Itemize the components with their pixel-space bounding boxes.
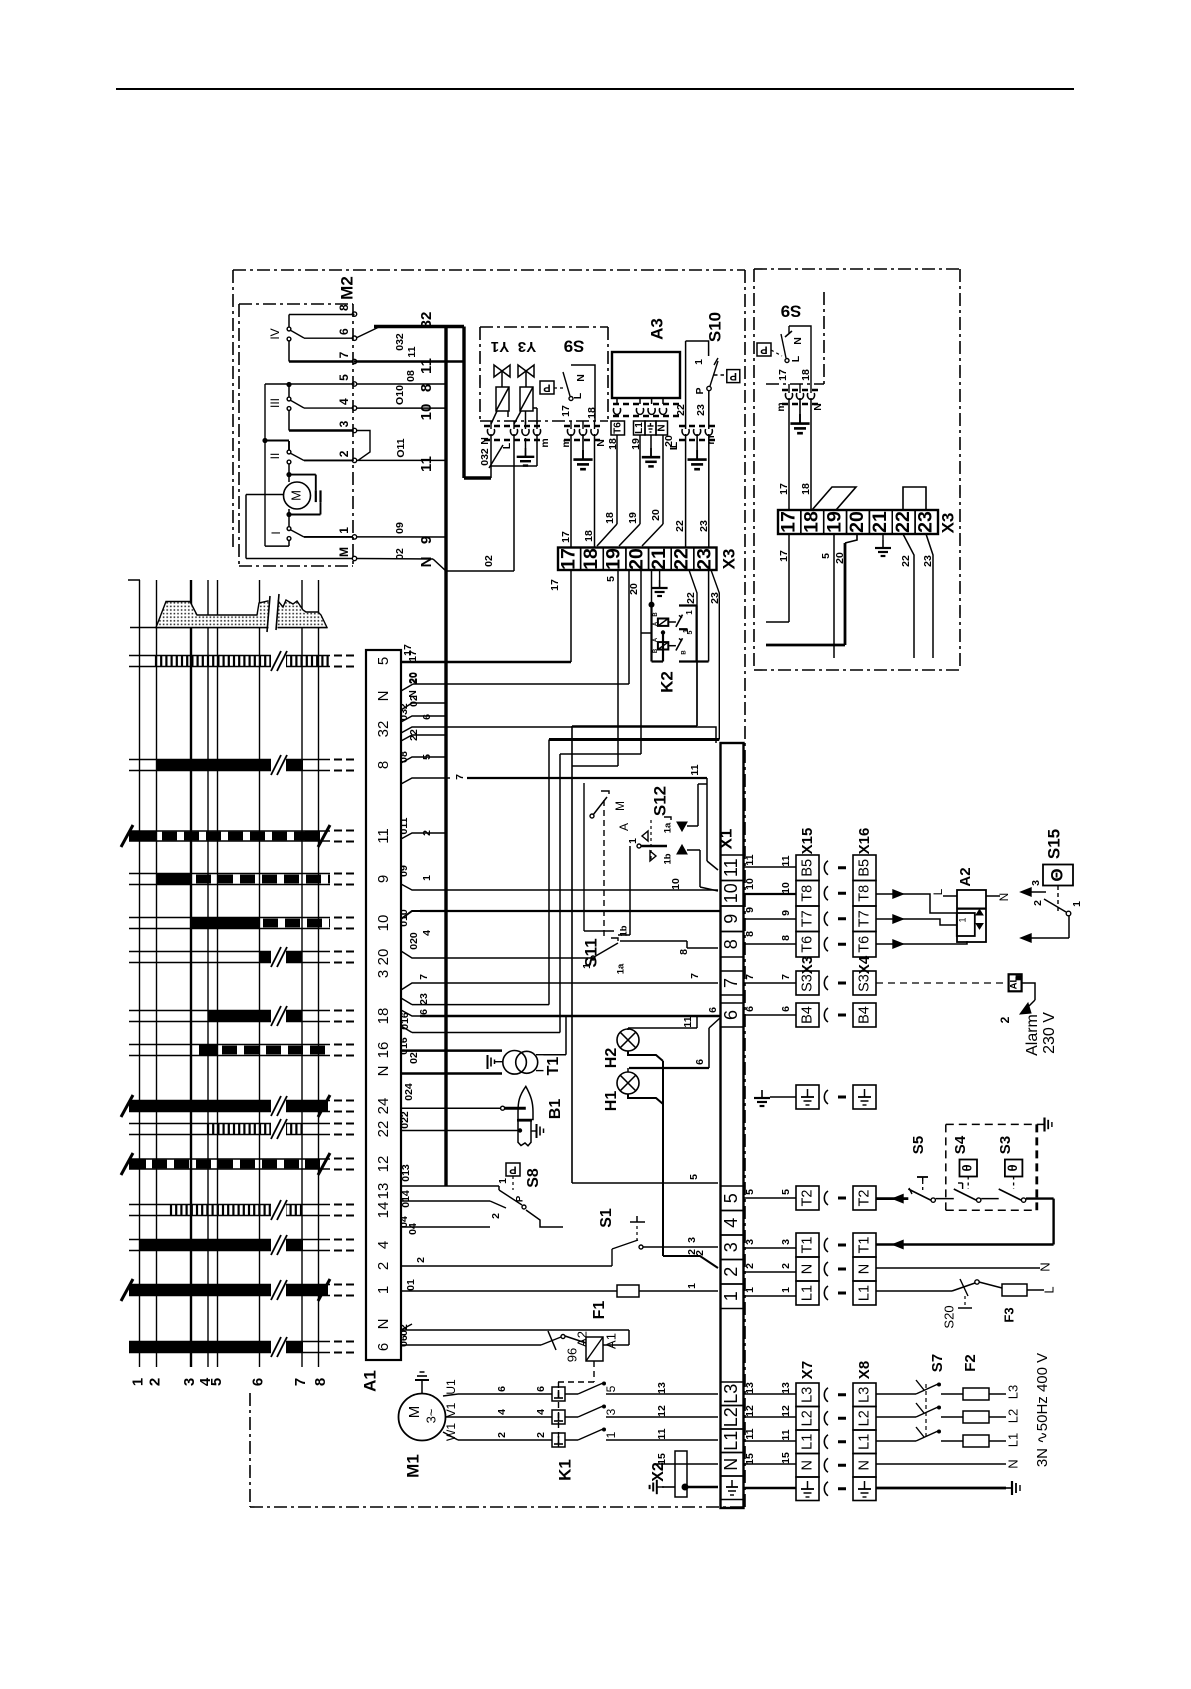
svg-text:18: 18 bbox=[583, 530, 595, 542]
X8 contact GND bbox=[853, 1477, 876, 1501]
svg-text:10: 10 bbox=[744, 878, 756, 890]
svg-text:1: 1 bbox=[780, 1287, 792, 1293]
svg-text:5: 5 bbox=[375, 657, 392, 665]
svg-text:S9: S9 bbox=[564, 337, 585, 356]
svg-text:10: 10 bbox=[670, 878, 682, 890]
svg-text:21: 21 bbox=[648, 548, 670, 570]
terminal X1.GND bbox=[721, 1476, 744, 1500]
svg-text:8: 8 bbox=[721, 939, 741, 949]
B1 wires bbox=[401, 1107, 501, 1109]
svg-text:1: 1 bbox=[421, 875, 433, 881]
solenoid coil Y3 bbox=[520, 387, 533, 411]
X16 contact B5 bbox=[853, 855, 876, 881]
A1 stub jog (net 22/08) bbox=[401, 735, 446, 741]
svg-text:L1: L1 bbox=[634, 422, 645, 434]
wires X8 to S7 bbox=[876, 1393, 916, 1395]
A1 stub jog to bus (net 6 tap) bbox=[401, 716, 446, 722]
M1 ground bbox=[421, 1380, 423, 1394]
svg-text:P: P bbox=[509, 1164, 516, 1176]
svg-text:3: 3 bbox=[780, 1239, 792, 1245]
svg-text:19: 19 bbox=[630, 438, 642, 450]
M2 pin5 wire (net 8) bbox=[356, 383, 446, 385]
svg-text:1: 1 bbox=[1071, 901, 1083, 907]
svg-text:9: 9 bbox=[721, 914, 741, 924]
X3right wire 20 down (thick) bbox=[844, 543, 847, 645]
svg-text:22: 22 bbox=[900, 555, 912, 567]
svg-text:P: P bbox=[543, 382, 550, 394]
svg-text:7: 7 bbox=[689, 973, 701, 979]
X7 contact GND bbox=[796, 1477, 819, 1501]
terminal X1.7 bbox=[721, 971, 744, 995]
svg-text:17: 17 bbox=[778, 511, 800, 533]
mains switch S20 bbox=[876, 1290, 952, 1292]
svg-text:X16: X16 bbox=[856, 828, 873, 855]
svg-text:22: 22 bbox=[671, 548, 693, 570]
M2 pin7 wire (net 11) bbox=[354, 360, 464, 363]
H1 top wire to net 6 branch bbox=[627, 1068, 629, 1072]
svg-text:01: 01 bbox=[405, 1279, 417, 1291]
svg-text:20: 20 bbox=[650, 509, 662, 521]
coil Y1 wires down bbox=[491, 411, 497, 424]
svg-text:L3: L3 bbox=[721, 1384, 741, 1404]
svg-text:8: 8 bbox=[678, 949, 690, 955]
svg-text:20: 20 bbox=[834, 552, 846, 564]
svg-text:9: 9 bbox=[780, 910, 792, 916]
svg-text:20: 20 bbox=[375, 949, 392, 966]
X3right wire 22 down bbox=[903, 534, 914, 658]
wire A1.1 to X1.10 bbox=[420, 889, 718, 891]
svg-text:L3: L3 bbox=[856, 1387, 872, 1403]
M2 capacitor bbox=[289, 474, 316, 476]
terminal strip X1 outline bbox=[721, 743, 744, 1508]
wire net 20 from N bbox=[662, 435, 664, 524]
controller A2 box bbox=[957, 890, 986, 942]
X8 ground wire (thick) bbox=[876, 1487, 1006, 1490]
svg-text:X3: X3 bbox=[719, 549, 738, 570]
svg-text:B1: B1 bbox=[547, 1099, 564, 1120]
svg-text:96: 96 bbox=[564, 1348, 579, 1362]
svg-text:013: 013 bbox=[400, 1164, 412, 1182]
svg-text:14: 14 bbox=[375, 1202, 392, 1219]
wire net 7 from A1 to X1.7 bbox=[401, 983, 718, 990]
X8 contact L2 bbox=[853, 1407, 876, 1431]
A3 connector pins bbox=[616, 398, 618, 404]
connector dashed bridges bbox=[484, 425, 543, 428]
terminal X1.L3 bbox=[721, 1382, 744, 1406]
svg-text:23: 23 bbox=[693, 548, 715, 570]
svg-text:5: 5 bbox=[337, 374, 351, 381]
svg-text:8: 8 bbox=[375, 761, 392, 769]
svg-text:8: 8 bbox=[418, 384, 435, 392]
solenoid coil Y1 bbox=[496, 387, 509, 411]
wire X3.20 down to A1 (net 20) bbox=[628, 570, 630, 684]
svg-text:08: 08 bbox=[405, 370, 417, 382]
svg-text:6: 6 bbox=[780, 1006, 792, 1012]
svg-text:22: 22 bbox=[892, 511, 914, 533]
middle bus wire net 5 to X1.5 bbox=[571, 726, 573, 1183]
terminal X3.22 bbox=[671, 548, 694, 571]
svg-text:P: P bbox=[730, 370, 737, 382]
svg-text:H2: H2 bbox=[603, 1048, 620, 1069]
svg-text:T1: T1 bbox=[545, 1057, 562, 1076]
svg-text:2: 2 bbox=[337, 450, 351, 457]
svg-text:3N ∿50Hz 400 V: 3N ∿50Hz 400 V bbox=[1034, 1353, 1051, 1467]
svg-text:L1: L1 bbox=[856, 1285, 872, 1301]
svg-text:T6: T6 bbox=[856, 936, 872, 953]
svg-text:S12: S12 bbox=[650, 786, 669, 816]
svg-text:3: 3 bbox=[721, 1242, 741, 1252]
svg-text:5: 5 bbox=[721, 1193, 741, 1203]
X7 contact L1 bbox=[796, 1430, 819, 1454]
terminal X1.L1 bbox=[721, 1429, 744, 1453]
svg-text:S1: S1 bbox=[598, 1208, 615, 1228]
short bus wire bbox=[583, 783, 585, 931]
S9 right wire 17 down bbox=[788, 398, 790, 510]
svg-text:1b: 1b bbox=[663, 853, 674, 864]
svg-text:2: 2 bbox=[496, 1432, 508, 1438]
svg-text:9: 9 bbox=[418, 536, 435, 544]
wires X1 to X15/X16 connectors bbox=[744, 866, 797, 868]
svg-text:7: 7 bbox=[418, 974, 430, 980]
S9 right P box bbox=[757, 343, 771, 356]
svg-text:11: 11 bbox=[375, 828, 392, 844]
svg-text:18: 18 bbox=[800, 511, 822, 533]
svg-text:S4: S4 bbox=[952, 1135, 969, 1154]
svg-text:1: 1 bbox=[721, 1291, 741, 1301]
svg-text:IV: IV bbox=[268, 328, 282, 339]
svg-text:A3: A3 bbox=[647, 318, 666, 340]
svg-text:23: 23 bbox=[922, 555, 934, 567]
X2 ground bbox=[662, 1486, 675, 1488]
svg-text:3: 3 bbox=[1030, 880, 1042, 886]
terminal X1.9 bbox=[721, 906, 744, 932]
svg-text:4: 4 bbox=[496, 1409, 508, 1415]
svg-text:L1: L1 bbox=[799, 1434, 815, 1450]
svg-text:7: 7 bbox=[454, 774, 466, 780]
svg-text:N: N bbox=[792, 337, 804, 345]
net 032 bus (thick) bbox=[462, 327, 465, 479]
right enclosure frame (dash-dot) bbox=[754, 268, 960, 270]
terminal X1.L2 bbox=[721, 1406, 744, 1430]
chart row 22 (tick band) bbox=[129, 1123, 330, 1125]
svg-text:N: N bbox=[418, 557, 435, 568]
motor M1 bbox=[399, 1394, 446, 1441]
terminal X3.20 bbox=[626, 548, 649, 571]
svg-text:O11: O11 bbox=[395, 438, 407, 457]
svg-text:S7: S7 bbox=[929, 1354, 946, 1372]
wire X16.T6 to A2 bbox=[876, 941, 967, 944]
svg-text:S9: S9 bbox=[781, 302, 802, 321]
svg-text:5: 5 bbox=[605, 576, 617, 582]
svg-text:Θ: Θ bbox=[1047, 868, 1066, 881]
svg-text:A: A bbox=[617, 823, 631, 831]
M2 sub-enclosure frame (dash-dot) bbox=[239, 303, 353, 305]
X15 contact T8 bbox=[796, 881, 819, 907]
svg-text:024: 024 bbox=[403, 1083, 415, 1101]
T1 ground bbox=[494, 1061, 503, 1063]
svg-text:13: 13 bbox=[780, 1382, 792, 1394]
svg-text:m: m bbox=[775, 402, 787, 411]
K1 mechanical dashed link bbox=[558, 1382, 560, 1447]
svg-text:3: 3 bbox=[604, 1408, 618, 1415]
B1 ground bbox=[531, 1130, 536, 1132]
S9 right connector pins bbox=[785, 393, 792, 399]
svg-text:13: 13 bbox=[375, 1183, 392, 1200]
svg-text:1: 1 bbox=[581, 963, 593, 969]
svg-text:AL: AL bbox=[1009, 976, 1020, 989]
svg-text:2: 2 bbox=[146, 1378, 163, 1386]
pin 3 to pin 2 jumper bbox=[356, 431, 370, 461]
svg-text:022: 022 bbox=[399, 1111, 411, 1129]
X3right wire 23 down bbox=[926, 534, 933, 658]
svg-text:19: 19 bbox=[603, 548, 625, 570]
svg-text:8: 8 bbox=[780, 935, 792, 941]
svg-text:4: 4 bbox=[535, 1409, 547, 1415]
svg-text:17: 17 bbox=[560, 405, 572, 417]
svg-text:18: 18 bbox=[607, 438, 619, 450]
svg-text:F3: F3 bbox=[1001, 1307, 1016, 1322]
svg-text:N: N bbox=[721, 1458, 741, 1471]
lamp bus down to X1.2 bbox=[662, 1061, 664, 1256]
terminal strip X3 (main) bbox=[558, 548, 717, 571]
svg-text:7: 7 bbox=[337, 351, 351, 358]
svg-text:S3: S3 bbox=[856, 974, 872, 992]
M2 sub-enclosure pins bbox=[352, 312, 356, 316]
S9 bracket bbox=[571, 365, 595, 421]
svg-text:L: L bbox=[790, 355, 802, 362]
chart row 11 (bar+dashes) bbox=[129, 831, 157, 842]
svg-text:θ: θ bbox=[1005, 1164, 1020, 1171]
svg-text:1: 1 bbox=[604, 1431, 618, 1438]
middle bus wire net 016 to A1 bbox=[559, 754, 561, 1033]
level sensor B1 body bbox=[518, 1086, 533, 1119]
connector pins below solenoid box bbox=[487, 429, 494, 435]
pressure switch P box (S9) bbox=[540, 381, 554, 394]
svg-text:L: L bbox=[1041, 1286, 1056, 1293]
svg-text:L1: L1 bbox=[856, 1434, 872, 1450]
fuse F3 bbox=[979, 1282, 1002, 1288]
terminal strip X3 (right frame) bbox=[778, 510, 938, 534]
svg-text:02: 02 bbox=[483, 555, 495, 567]
wire net 22 to X3 bbox=[685, 434, 687, 548]
svg-text:17: 17 bbox=[407, 650, 419, 662]
svg-text:N: N bbox=[856, 1264, 872, 1274]
chart row 8 (bar) bbox=[129, 759, 330, 761]
X16 contact T2 bbox=[853, 1186, 876, 1210]
svg-text:7: 7 bbox=[292, 1378, 309, 1386]
transformer T1 primary wires bbox=[401, 1049, 502, 1052]
wire A1.32 to X1 top bbox=[401, 727, 716, 743]
relay to K1 dashed link bbox=[593, 1361, 595, 1382]
wire staircase to middle buses bbox=[572, 725, 697, 727]
svg-text:L: L bbox=[931, 888, 945, 895]
svg-text:2: 2 bbox=[780, 1263, 792, 1269]
svg-text:10: 10 bbox=[721, 883, 741, 903]
svg-text:011: 011 bbox=[398, 817, 410, 834]
svg-text:1: 1 bbox=[693, 359, 705, 365]
K2 output bracket to X3.23 bbox=[708, 570, 710, 662]
terminal X1.11 bbox=[721, 855, 744, 881]
terminal X3.19 bbox=[603, 548, 626, 571]
svg-text:6: 6 bbox=[496, 1386, 508, 1392]
X16 contact S3 bbox=[853, 971, 876, 995]
svg-text:19: 19 bbox=[627, 512, 639, 524]
svg-text:12: 12 bbox=[744, 1405, 756, 1417]
svg-text:6: 6 bbox=[249, 1378, 266, 1386]
X8 contact L3 bbox=[853, 1383, 876, 1407]
X8 contact N bbox=[853, 1454, 876, 1478]
svg-text:F2: F2 bbox=[962, 1354, 979, 1372]
svg-text:X8: X8 bbox=[856, 1361, 873, 1379]
svg-text:014: 014 bbox=[400, 1190, 412, 1208]
H2 wire to net 6 bbox=[627, 1028, 629, 1030]
S8 switch bbox=[446, 1185, 499, 1187]
A3 pin boxes T6 L1 gnd N bbox=[611, 421, 625, 435]
chart row 9 (bar+dashes) bbox=[129, 873, 330, 875]
svg-text:B5: B5 bbox=[799, 859, 815, 877]
svg-text:6: 6 bbox=[694, 1059, 706, 1065]
svg-text:7: 7 bbox=[744, 974, 756, 980]
terminal X1.6 bbox=[721, 1003, 744, 1027]
page top rule bbox=[116, 88, 1074, 90]
H1 wire down to lamp bus bbox=[628, 1094, 663, 1104]
svg-text:S20: S20 bbox=[941, 1305, 956, 1328]
X15 contact L1 bbox=[796, 1281, 819, 1305]
svg-text:L1: L1 bbox=[799, 1285, 815, 1301]
wire X16.T2 to S5 (thick) bbox=[876, 1197, 908, 1200]
svg-text:5: 5 bbox=[744, 1189, 756, 1195]
wire net 23 to X3 bbox=[708, 434, 710, 548]
svg-text:A: A bbox=[653, 637, 659, 642]
svg-text:S3: S3 bbox=[997, 1136, 1014, 1154]
svg-text:02: 02 bbox=[394, 548, 406, 560]
X15 contact N bbox=[796, 1257, 819, 1281]
svg-text:12: 12 bbox=[656, 1405, 668, 1417]
bridge above X3right 22/23 bbox=[903, 487, 926, 510]
S10 bracket bbox=[686, 341, 709, 356]
K2 coil a bbox=[658, 619, 668, 626]
terminal X3.23 bbox=[694, 548, 717, 571]
svg-text:13: 13 bbox=[744, 1382, 756, 1394]
svg-text:18: 18 bbox=[375, 1008, 392, 1025]
svg-text:17: 17 bbox=[560, 531, 572, 543]
svg-text:N: N bbox=[479, 437, 491, 445]
S12 mechanical dashed link bbox=[603, 800, 605, 938]
svg-text:8: 8 bbox=[337, 304, 351, 311]
T1 secondary stubs bbox=[536, 1054, 544, 1056]
S15 switch bbox=[1044, 899, 1066, 912]
terminal X3right.21 bbox=[869, 510, 892, 534]
program chart vertical grid lines bbox=[139, 580, 141, 1367]
X15 contact T6 bbox=[796, 932, 819, 958]
svg-text:X3: X3 bbox=[938, 513, 957, 534]
svg-text:6: 6 bbox=[707, 1007, 719, 1013]
wire S12.1 down to S11 bbox=[629, 846, 631, 935]
svg-text:L2: L2 bbox=[721, 1407, 741, 1427]
svg-text:9: 9 bbox=[744, 907, 756, 913]
svg-text:M: M bbox=[613, 801, 627, 811]
svg-text:6: 6 bbox=[337, 328, 351, 335]
svg-text:2: 2 bbox=[721, 1267, 741, 1277]
svg-text:M: M bbox=[406, 1406, 423, 1419]
pressure switch S8 P box bbox=[506, 1163, 520, 1176]
svg-text:X4: X4 bbox=[856, 955, 873, 974]
terminal X3right.23 bbox=[915, 510, 938, 534]
K1 mechanical dashed link bbox=[552, 1410, 565, 1424]
svg-text:23: 23 bbox=[709, 592, 721, 604]
svg-text:11: 11 bbox=[780, 855, 792, 866]
svg-text:1: 1 bbox=[375, 1286, 392, 1294]
X16 contact T1 bbox=[853, 1233, 876, 1257]
S10 P box bbox=[727, 370, 740, 383]
svg-text:L: L bbox=[572, 392, 584, 399]
wire net 1 through F1 bbox=[401, 1290, 617, 1292]
svg-text:4: 4 bbox=[721, 1218, 741, 1228]
svg-text:A1: A1 bbox=[603, 1333, 618, 1349]
svg-text:N: N bbox=[375, 1066, 392, 1077]
wire S3 chain down to X4.T1 (thick) bbox=[1052, 1199, 1054, 1245]
svg-text:F1: F1 bbox=[591, 1301, 608, 1320]
cable flag above X3right 18/19 bbox=[812, 487, 856, 510]
programmer A1 box bbox=[366, 650, 401, 1360]
terminal X3.18 bbox=[581, 548, 604, 571]
X16 contact B4 bbox=[853, 1003, 876, 1027]
svg-text:230 V: 230 V bbox=[1041, 1012, 1058, 1054]
wire net 18 from T6 bbox=[616, 435, 618, 524]
svg-text:N: N bbox=[1005, 1459, 1020, 1468]
A3 pin ground bbox=[650, 435, 652, 448]
terminal X1.8 bbox=[721, 932, 744, 958]
svg-text:A2: A2 bbox=[957, 867, 974, 886]
svg-text:M: M bbox=[288, 490, 303, 501]
X15 ground wire bbox=[770, 1096, 796, 1098]
svg-text:N: N bbox=[575, 374, 587, 382]
cam profile curve with stipple fill bbox=[130, 627, 327, 629]
svg-text:7: 7 bbox=[721, 978, 741, 988]
X16 contact T8 bbox=[853, 881, 876, 907]
K2 contact 1 lower bbox=[668, 645, 676, 647]
svg-text:N: N bbox=[407, 690, 419, 698]
svg-text:5: 5 bbox=[688, 1174, 700, 1180]
S10 switch blade bbox=[714, 358, 718, 365]
svg-text:22: 22 bbox=[685, 592, 697, 604]
wire X3.19 down (net 5) bbox=[617, 570, 619, 766]
svg-text:8: 8 bbox=[744, 931, 756, 937]
svg-text:L2: L2 bbox=[799, 1410, 815, 1426]
wire X3.22 down (net 22) bbox=[689, 570, 697, 726]
svg-text:5: 5 bbox=[208, 1378, 225, 1386]
svg-text:11: 11 bbox=[744, 854, 756, 865]
svg-text:032: 032 bbox=[394, 333, 406, 351]
chart row 16 (bar+dashes) bbox=[129, 1044, 330, 1046]
svg-text:10: 10 bbox=[780, 882, 792, 894]
svg-text:N: N bbox=[595, 439, 607, 447]
common bus inside M2 bbox=[264, 384, 266, 546]
svg-text:L1: L1 bbox=[721, 1431, 741, 1451]
alarm dashed wire from X4.S3 bbox=[876, 982, 1004, 984]
svg-text:T2: T2 bbox=[799, 1190, 815, 1207]
motor M (inside M2) bbox=[288, 464, 290, 475]
svg-text:23: 23 bbox=[418, 993, 430, 1005]
X15 contact T7 bbox=[796, 906, 819, 932]
svg-text:1: 1 bbox=[744, 1287, 756, 1293]
svg-text:17: 17 bbox=[557, 548, 579, 570]
wire net 6 from A1 to X1.6 (thick) bbox=[420, 1015, 720, 1018]
svg-text:11: 11 bbox=[406, 346, 418, 357]
svg-text:5: 5 bbox=[687, 630, 694, 634]
relay coil A1 bbox=[586, 1337, 603, 1361]
svg-text:020: 020 bbox=[408, 932, 420, 950]
